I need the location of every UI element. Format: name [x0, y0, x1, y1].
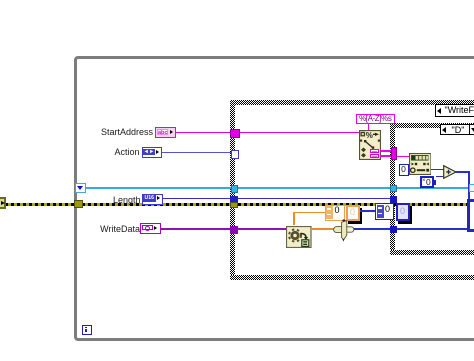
tunnel error on outer case — [230, 202, 238, 208]
wire pink inside inner case — [397, 156, 410, 157]
constant blue element (shadowed) — [398, 206, 412, 224]
tunnel StartAddress on outer case — [230, 129, 240, 139]
wire WriteData (purple) — [161, 228, 287, 230]
cyan reference wire — [85, 187, 470, 189]
wire orange element to blue array const — [360, 210, 376, 212]
inner case structure border left — [390, 123, 395, 255]
tunnel Length on inner case — [390, 196, 397, 203]
control Action (enum) — [142, 147, 163, 159]
function Type Cast (funnel) — [333, 219, 355, 242]
wire typecast output (blue) — [354, 228, 390, 230]
inner case selector label "D" — [440, 124, 474, 136]
error in tunnel on loop border — [74, 200, 83, 208]
function Scan From String — [359, 130, 381, 160]
error in terminal (cut off at left edge) — [0, 197, 6, 209]
wire constant to scan icon — [368, 124, 370, 130]
cyan tunnel at right edge — [469, 184, 474, 192]
error wire dashed main segment — [82, 203, 467, 206]
string constant %[A-Z]%s — [356, 114, 396, 125]
control Length (U16) — [142, 194, 164, 205]
tunnel Length on outer case — [230, 196, 238, 204]
constant orange array [0] — [325, 205, 346, 221]
label WriteData — [100, 224, 140, 234]
outer case structure border top — [230, 100, 474, 105]
case selector terminal — [231, 150, 239, 159]
error wire dashed left segment — [5, 203, 75, 206]
label StartAddress — [101, 127, 153, 137]
wire flatten to typecast (orange) — [312, 228, 334, 230]
wires scan outputs to tunnel — [380, 150, 392, 151]
label Length — [113, 195, 141, 205]
control StartAddress (string) — [155, 127, 176, 139]
outer case selector label "WriteF... — [435, 104, 474, 117]
constant 0 (I32) — [399, 164, 409, 177]
inner case structure border top — [390, 123, 474, 128]
function Add — [443, 165, 457, 179]
wire search output to add — [431, 169, 444, 171]
shift register left terminal — [75, 183, 86, 194]
scan output terminal boxes (pink) — [370, 149, 380, 154]
node (blue box) at right edge — [467, 199, 474, 232]
wire orange down to typecast type input — [344, 221, 346, 224]
constant blue array [0] — [375, 203, 394, 220]
wire add output — [455, 171, 470, 173]
wire Action (enum blue) — [162, 152, 231, 154]
wire array inside inner case — [397, 228, 468, 230]
function Search 1D Array — [409, 153, 432, 175]
tunnel WriteData on outer case — [230, 226, 239, 234]
tunnel pink on inner case — [391, 147, 398, 161]
constant x0 (hex) — [420, 176, 434, 188]
wire StartAddress (magenta) — [175, 132, 359, 133]
tunnel array on inner case — [390, 226, 397, 234]
outer case structure border bottom — [230, 275, 474, 280]
tunnel cyan on inner case — [390, 185, 397, 192]
function Flatten To String — [286, 226, 312, 248]
wire orange const to flatten (top input) — [293, 212, 326, 214]
label Action — [114, 147, 139, 157]
control WriteData — [140, 223, 162, 235]
inner case structure border bottom — [390, 250, 474, 255]
iteration terminal i — [82, 325, 92, 335]
wire x0 to add — [436, 176, 444, 178]
svg-text:%: % — [365, 131, 372, 140]
tunnel cyan on outer case — [231, 185, 239, 193]
constant orange element (shadowed) — [348, 208, 362, 224]
wire Length (blue) — [163, 198, 392, 200]
outer case structure border left — [230, 100, 235, 280]
while loop — [74, 56, 474, 341]
